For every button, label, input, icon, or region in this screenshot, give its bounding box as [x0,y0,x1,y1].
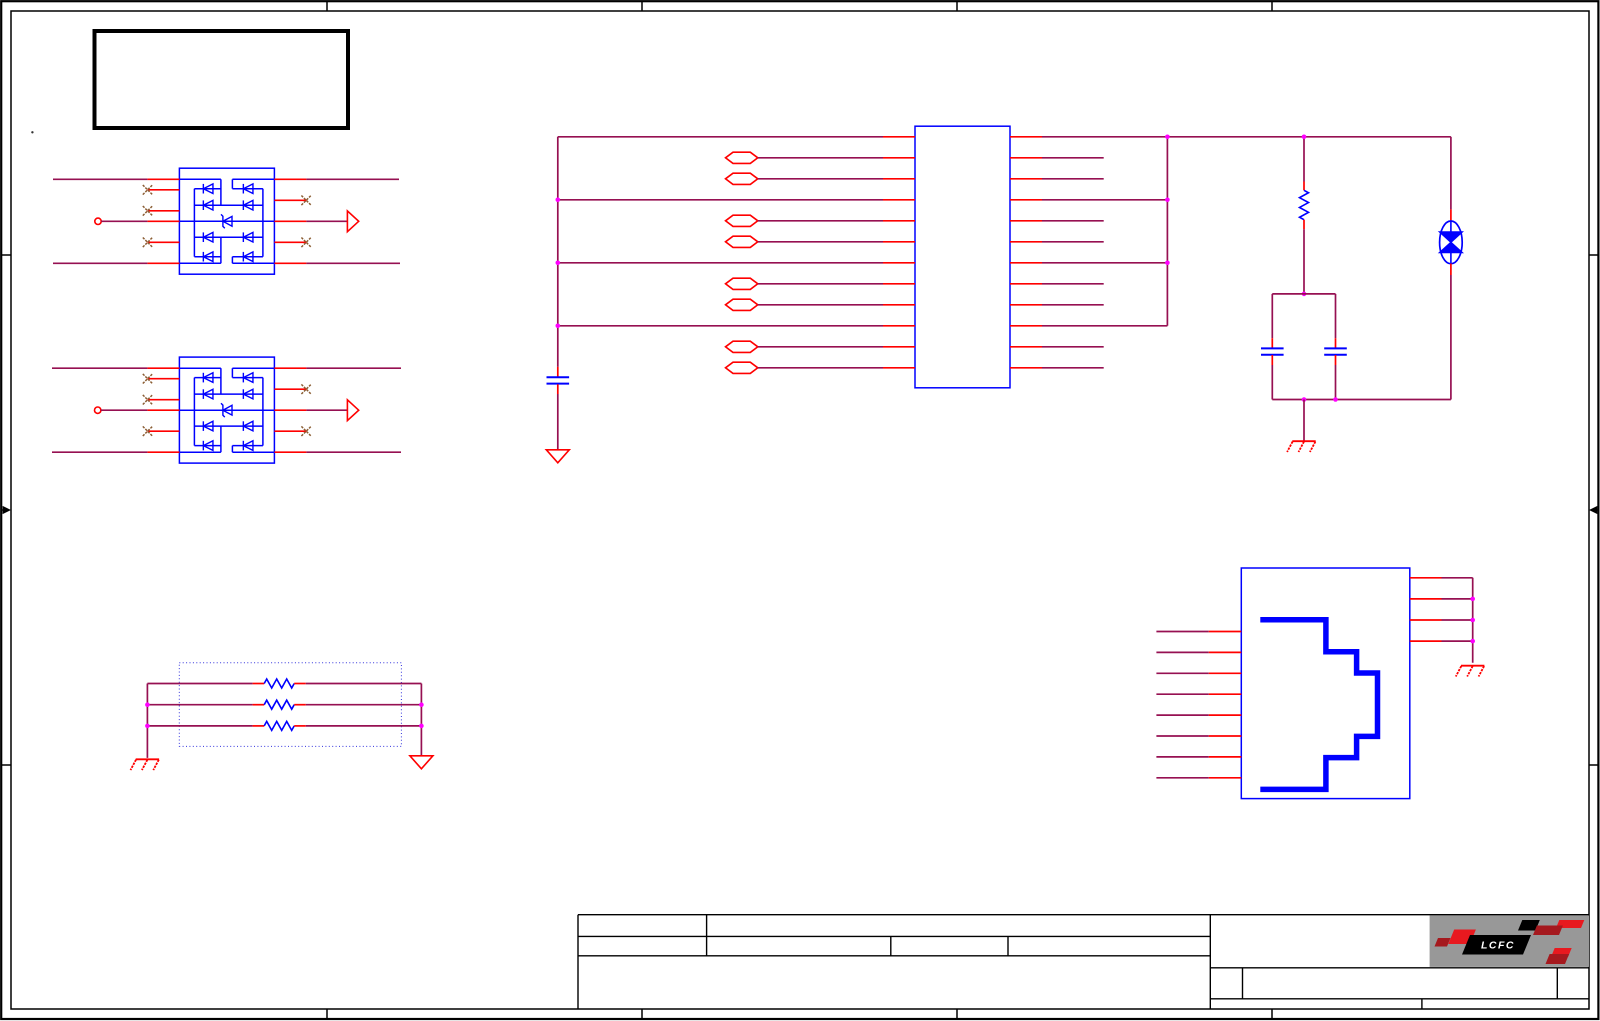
no-connect [143,185,153,195]
wire [101,409,147,411]
wire [1156,631,1208,633]
pin [1209,693,1242,695]
no-connect [143,426,153,436]
wire [1042,346,1104,348]
wire [758,220,883,222]
wire left bus [146,684,148,758]
IC U3 [915,126,1010,388]
wire [1303,229,1305,294]
wire bottom rail [1272,399,1451,401]
ground (triangle) [546,450,569,463]
pin [1209,756,1242,758]
junction [1470,597,1475,602]
wire [558,199,883,201]
wire [1042,283,1104,285]
diode array U1 (ESD protection) [147,168,306,274]
junction [556,324,561,329]
wire [758,346,883,348]
chassis ground [1456,666,1485,677]
pin [1410,577,1442,579]
wire [558,325,883,327]
RJ45 connector J1 [1241,568,1410,799]
off-page connector [726,278,758,289]
wire [1442,577,1473,579]
wire [758,304,883,306]
wire [1303,400,1305,442]
wire [1042,178,1104,180]
no-connect [301,426,311,436]
svg-text:LCFC: LCFC [1481,940,1515,952]
pin [1209,735,1242,737]
junction [145,702,150,707]
wire left bus [557,137,559,367]
wire [1442,619,1473,621]
wire [1272,293,1335,295]
pin [1410,619,1442,621]
text box (empty title frame) [95,31,349,128]
wire [1442,598,1473,600]
wire [1042,325,1167,327]
resistor R3 [253,700,306,709]
junction [1470,639,1475,644]
junction [1302,135,1307,140]
pin [1209,714,1242,716]
wire [1156,693,1208,695]
junction [556,261,561,266]
IC pins left [883,137,915,368]
wire [758,178,883,180]
resistor pack outline [179,663,401,747]
wire [147,683,252,685]
diode array U2 (ESD protection) [147,357,306,463]
wire [306,178,399,180]
no-connect [143,206,153,216]
wire [1042,241,1104,243]
wire [558,262,883,264]
wire [1156,714,1208,716]
no-connect [301,384,311,394]
wire [1442,640,1473,642]
wire [758,283,883,285]
junction [1165,198,1170,203]
wire [558,136,883,138]
wire [1042,157,1104,159]
off-page connector [726,152,758,163]
pin [1209,631,1242,633]
wire [52,451,147,453]
off-page connector [726,362,758,373]
no-connect [143,395,153,405]
pin [1410,598,1442,600]
wire [52,367,147,369]
wire [1335,294,1337,338]
wire [306,451,401,453]
wire [758,157,883,159]
no-connect [143,238,153,248]
wire [1335,365,1337,400]
junction [1302,397,1307,402]
no-connect [301,196,311,206]
wire [101,220,147,222]
pin [1209,672,1242,674]
wire [1271,365,1273,400]
IC pins right [1010,137,1042,368]
wire [53,178,147,180]
no-connect [301,238,311,248]
junction [1333,397,1338,402]
LCFC logo [1430,916,1589,967]
wire [147,725,252,727]
wire [758,241,883,243]
wire [306,409,347,411]
wire [1042,367,1104,369]
chassis ground [131,759,160,770]
lamp DS1 [1440,209,1463,275]
junction [1302,292,1307,297]
no-connect [143,374,153,384]
off-page connector [726,341,758,352]
wire right bus [420,684,422,756]
wire [306,262,400,264]
output arrow [347,400,358,421]
chassis ground [1287,441,1316,452]
wire [1042,262,1167,264]
junction [1470,618,1475,623]
resistor R2 [253,679,306,688]
wire [306,683,422,685]
wire [1156,672,1208,674]
ground (triangle) [410,756,433,769]
wire [1042,199,1167,201]
junction [419,702,424,707]
wire [306,367,401,369]
wire [758,367,883,369]
junction [1165,135,1170,140]
wire [1450,275,1452,400]
pin [1209,777,1242,779]
capacitor C1 [547,367,570,394]
connector circle pin [95,218,101,224]
wire [1156,735,1208,737]
off-page connector [726,299,758,310]
wire [1156,777,1208,779]
wire right bus [1166,137,1168,326]
wire [306,725,422,727]
connector circle pin [95,407,101,413]
wire [1042,220,1104,222]
pin [1209,651,1242,653]
wire [1450,137,1452,210]
off-page connector [726,215,758,226]
wire [53,262,147,264]
junction [145,724,150,729]
wire [557,394,559,450]
resistor R4 [253,721,306,730]
RJ45 jack profile [1260,620,1377,790]
pin [1410,640,1442,642]
junction [1165,261,1170,266]
wire bus [1472,578,1474,663]
wire [306,220,347,222]
wire top rail [1042,136,1451,138]
wire [1042,304,1104,306]
wire [1156,651,1208,653]
wire [306,704,422,706]
wire [1303,137,1305,182]
output arrow [347,211,358,232]
capacitor C2 [1261,338,1284,365]
off-page connector [726,173,758,184]
junction [556,198,561,203]
capacitor C3 [1324,338,1347,365]
off-page connector [726,236,758,247]
junction [419,724,424,729]
resistor R1 [1300,182,1309,230]
wire [1271,294,1273,338]
wire [1156,756,1208,758]
wire [147,704,252,706]
